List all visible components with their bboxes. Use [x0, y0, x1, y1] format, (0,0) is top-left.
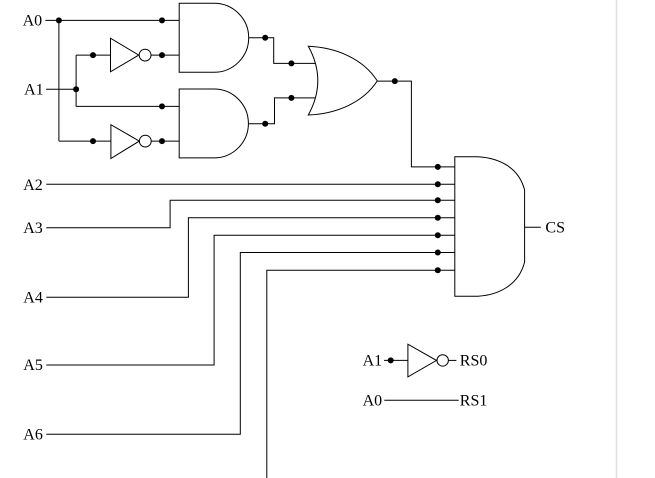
junction dot U3 input [388, 357, 394, 363]
wire A1 to inverter U3 [384, 359, 408, 361]
junction dot G4 pin 7 [435, 267, 441, 273]
inverter U2 [111, 125, 151, 159]
junction dot A0 [56, 17, 62, 23]
svg-text:A3: A3 [23, 220, 43, 237]
wire A2 [46, 183, 455, 185]
wire G2 output [248, 98, 316, 124]
inverter U3 [408, 344, 449, 377]
AND gate G1 [179, 3, 249, 72]
svg-text:CS: CS [545, 220, 565, 237]
wire A0 to inverter U2 [59, 140, 111, 142]
svg-text:A1: A1 [24, 81, 44, 98]
wire A1 up branch [75, 55, 77, 89]
wire A1 to AND G2 [76, 105, 179, 107]
wire CS output [525, 226, 541, 228]
wire A0 vertical drop [58, 20, 60, 141]
AND gate G4 [455, 157, 525, 297]
wire A1 [46, 88, 76, 90]
wire A6 [46, 253, 455, 435]
wire U2 output [151, 140, 179, 142]
wire A0 to AND G1 [45, 19, 179, 21]
wire A4 [46, 218, 455, 298]
wire U3 output to RS0 [448, 359, 456, 361]
junction dot G4 pin 3 [435, 197, 441, 203]
junction dot U1 input [90, 52, 96, 58]
junction dot G3 input 2 [288, 95, 294, 101]
junction dot U2 input [90, 138, 96, 144]
svg-text:A6: A6 [23, 426, 43, 443]
svg-text:A1: A1 [363, 353, 383, 370]
AND gate G2 [179, 89, 248, 158]
junction dot G4 pin 5 [435, 232, 441, 238]
svg-text:A0: A0 [363, 392, 383, 409]
svg-text:A5: A5 [23, 357, 43, 374]
junction dot G4 pin 4 [435, 215, 441, 221]
svg-text:A0: A0 [23, 13, 43, 30]
junction dot A0 G1 pin [159, 17, 165, 23]
wire A3 [46, 200, 455, 228]
svg-text:RS0: RS0 [460, 353, 488, 370]
inverter U1 [111, 38, 152, 72]
OR gate G3 [308, 46, 377, 115]
wire A5 [46, 235, 455, 365]
junction dot G3 input 1 [288, 60, 294, 66]
svg-text:A4: A4 [23, 290, 43, 307]
junction dot U2 output pin [159, 138, 165, 144]
junction dot G4 pin 2 [435, 181, 441, 187]
junction dot G2 output [262, 121, 268, 127]
junction dot G3 output [392, 78, 398, 84]
svg-text:A2: A2 [23, 177, 43, 194]
svg-text:RS1: RS1 [460, 392, 488, 409]
junction dot G4 pin 6 [435, 250, 441, 256]
wire A0 to RS1 [384, 399, 458, 401]
junction dot G1 output [262, 35, 268, 41]
wire U1 output [151, 54, 179, 56]
junction dot A1 [73, 86, 79, 92]
wire A1 to inverter U1 [76, 54, 110, 56]
junction dot G4 pin 1 [435, 164, 441, 170]
junction dot A1 G2 pin [159, 103, 165, 109]
wire A1 down branch [75, 89, 77, 106]
wire G3 output to big AND [377, 81, 455, 167]
wire G1 output [249, 38, 317, 64]
page edge line [616, 0, 618, 478]
junction dot U1 output pin [159, 52, 165, 58]
wire A7 from bottom edge [267, 270, 455, 478]
